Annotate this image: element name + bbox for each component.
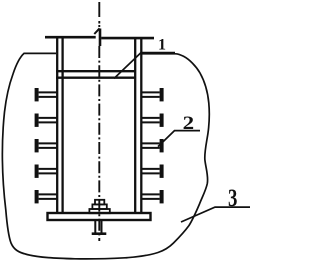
stud R5	[160, 190, 164, 203]
break symbol on centerline	[94, 28, 99, 34]
svg-text:3: 3	[228, 185, 237, 212]
centerline lower segment (dash-dot)	[98, 46, 100, 241]
inner diaphragm plate 1	[56, 70, 136, 72]
column left flange (two lines)	[56, 37, 58, 213]
stud R3	[160, 139, 164, 152]
anchor bolt below base plate	[95, 221, 101, 233]
stud R4	[160, 165, 164, 178]
column right flange (two lines)	[134, 37, 136, 213]
studs left (5)	[35, 88, 57, 203]
stud L4	[35, 165, 39, 178]
svg-text:1: 1	[158, 37, 166, 54]
stud L3	[35, 139, 39, 152]
column top cap line (left part)	[45, 36, 96, 39]
label 3 leader	[181, 207, 250, 222]
anchor nut stack above base plate	[89, 200, 109, 213]
stud L5	[35, 190, 39, 203]
studs right (5)	[142, 88, 164, 203]
column top cap line (right part)	[101, 37, 154, 40]
label 1 leader	[114, 53, 175, 79]
base plate	[48, 213, 151, 220]
concrete foundation outline	[2, 53, 209, 258]
stud R1	[160, 88, 164, 101]
anchor washer bar	[92, 232, 107, 235]
stud L1	[35, 88, 39, 101]
centerline upper segment (dash-dot)	[98, 2, 100, 27]
label 2 leader	[158, 131, 200, 147]
stud R2	[160, 114, 164, 127]
svg-text:2: 2	[183, 113, 195, 134]
stud L2	[35, 114, 39, 127]
